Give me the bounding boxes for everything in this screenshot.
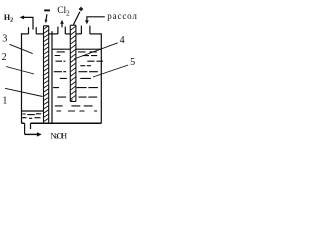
svg-text:4: 4 — [120, 35, 125, 46]
liquid dashes catholyte sump — [22, 114, 41, 119]
vessel top stubs — [28, 27, 30, 34]
svg-text:1: 1 — [2, 96, 7, 107]
anode hatching — [70, 26, 76, 101]
wire: cathode lead arrow — [45, 14, 48, 20]
vessel top edge segments — [21, 33, 29, 35]
svg-text:5: 5 — [130, 57, 135, 68]
leader line 1 — [5, 88, 43, 96]
leader line 2 — [6, 67, 34, 75]
svg-text:3: 3 — [2, 33, 7, 44]
node plus terminal — [79, 7, 83, 11]
node: catholyte level line — [22, 110, 44, 112]
svg-text:NaOH: NaOH — [50, 132, 67, 141]
node: anolyte level line left of anode — [53, 48, 71, 50]
anode bar — [70, 25, 76, 101]
cathode bar — [44, 26, 49, 124]
svg-text:2: 2 — [2, 52, 7, 63]
diaphragm partition — [51, 31, 53, 123]
node: anolyte level line right of anode — [76, 48, 101, 50]
svg-text:Cl2: Cl2 — [57, 6, 70, 18]
wire: NaOH arrow — [25, 133, 38, 135]
node minus terminal — [44, 9, 50, 11]
svg-text:рассол: рассол — [107, 11, 137, 21]
vessel right wall — [100, 33, 102, 123]
leader line 3 — [10, 44, 33, 53]
cathode hatching — [44, 26, 49, 122]
leader line 4 — [74, 43, 118, 59]
svg-text:H2: H2 — [4, 13, 13, 24]
vessel bottom — [22, 122, 102, 124]
wire: NaOH outlet pipe — [24, 123, 26, 134]
wire: Cl2 outlet arrow — [61, 23, 63, 27]
wire: H2 outlet pipe and arrow — [23, 17, 33, 29]
wire: brine inlet arrow — [87, 17, 105, 20]
vessel left wall — [21, 33, 23, 123]
leader line 5 — [93, 65, 128, 77]
liquid dashes anode compartment — [53, 52, 103, 111]
wire: anode lead — [74, 12, 80, 25]
